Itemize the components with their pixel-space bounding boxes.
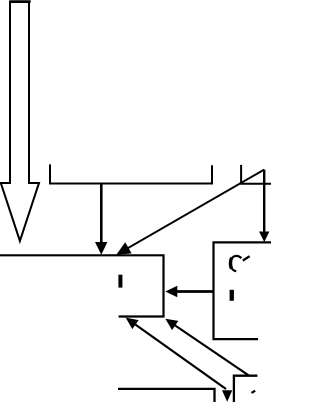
- arrow H1: horizontal from right box pointing left into left box: [177, 290, 214, 293]
- arrow V1: vertical from bracket 1 down to left box: [100, 184, 103, 244]
- label 1 in right box (second line): [230, 290, 234, 301]
- bracket 2 (open-top bracket, right edge): [241, 165, 271, 184]
- arrow V2: vertical down to right box: [263, 170, 265, 233]
- small box bottom-right (partial: top and left edges): [234, 376, 258, 402]
- arrow D3: diagonal from small box up-left, head near left box bottom: [175, 326, 249, 376]
- arrow D2: diagonal, up-left head at left box bottom, down head at bottom box: [136, 325, 227, 389]
- tiny mark in small box: [252, 391, 256, 393]
- bracket 1 (open-top bracket, middle): [50, 164, 212, 183]
- bottom box (partial: top and right edges): [118, 389, 215, 402]
- label C thick left stroke: [231, 258, 232, 269]
- arrow D1: long diagonal from top of V2 down-left to left box: [127, 170, 265, 249]
- left box (partial: top, right, bottom edges): [0, 255, 164, 316]
- label C in right box: [230, 256, 241, 271]
- block arrow top cap: [9, 0, 30, 3]
- small slanted stroke after C: [243, 256, 250, 260]
- hollow block arrow pointing down (top left): [1, 2, 39, 241]
- right box (partial: top, left, bottom edges): [214, 242, 272, 339]
- label I in left box: [118, 275, 122, 288]
